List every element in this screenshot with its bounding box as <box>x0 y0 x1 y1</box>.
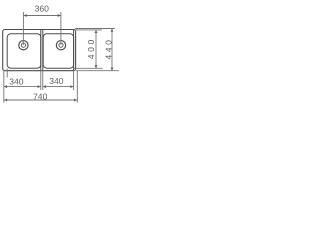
left bowl <box>7 34 41 68</box>
arrow 740 left <box>4 99 7 102</box>
svg-text:740: 740 <box>33 92 48 102</box>
top ext 440 <box>75 28 115 30</box>
svg-text:400: 400 <box>86 37 96 59</box>
bowl2 right ext line <box>73 71 75 91</box>
bowl1 left ext stub <box>6 69 8 78</box>
top ext 400 <box>75 29 102 31</box>
extension line right drain <box>60 12 62 45</box>
arrow 360 right <box>58 14 61 17</box>
divider wall line a <box>40 30 42 70</box>
left drain outer circle <box>19 41 28 50</box>
arrow 440 up <box>111 29 114 32</box>
dim line 340 left <box>4 86 41 88</box>
extension line left drain <box>22 12 24 45</box>
dim line 400 <box>95 30 97 68</box>
arrow 400 up <box>95 30 98 33</box>
svg-text:340: 340 <box>49 76 64 86</box>
arrow 740 right <box>74 99 77 102</box>
outer right ext line (740) <box>76 71 78 103</box>
dim line 740 <box>4 99 77 101</box>
arrow 340L left <box>4 85 7 88</box>
arrow 340R left <box>43 85 46 88</box>
svg-text:360: 360 <box>35 4 50 14</box>
arrow 360 left <box>24 14 27 17</box>
bottom ext 400 (bowl bottom) <box>74 67 103 69</box>
arrow 340R right <box>70 85 73 88</box>
divider wall line b <box>42 30 44 70</box>
outer sink rim rectangle <box>3 30 76 71</box>
bottom-left ext line <box>3 70 5 103</box>
dim line 360 <box>24 15 61 17</box>
right drain inner circle <box>59 43 63 47</box>
arrow 400 down <box>95 65 98 68</box>
bowl2 right straight edge <box>73 30 75 70</box>
arrow 440 down <box>111 68 114 71</box>
bottom ext 440 (outer bottom) <box>76 70 119 72</box>
dim line 440 <box>111 29 113 71</box>
right drain outer circle <box>56 41 65 50</box>
divider ext line a <box>40 71 42 91</box>
divider ext line b <box>42 71 44 91</box>
svg-text:340: 340 <box>9 76 24 86</box>
svg-text:440: 440 <box>104 38 114 60</box>
arrow 340L right <box>38 85 41 88</box>
left drain inner circle <box>21 43 25 47</box>
dim line 340 right <box>43 86 74 88</box>
right bowl <box>43 34 73 68</box>
